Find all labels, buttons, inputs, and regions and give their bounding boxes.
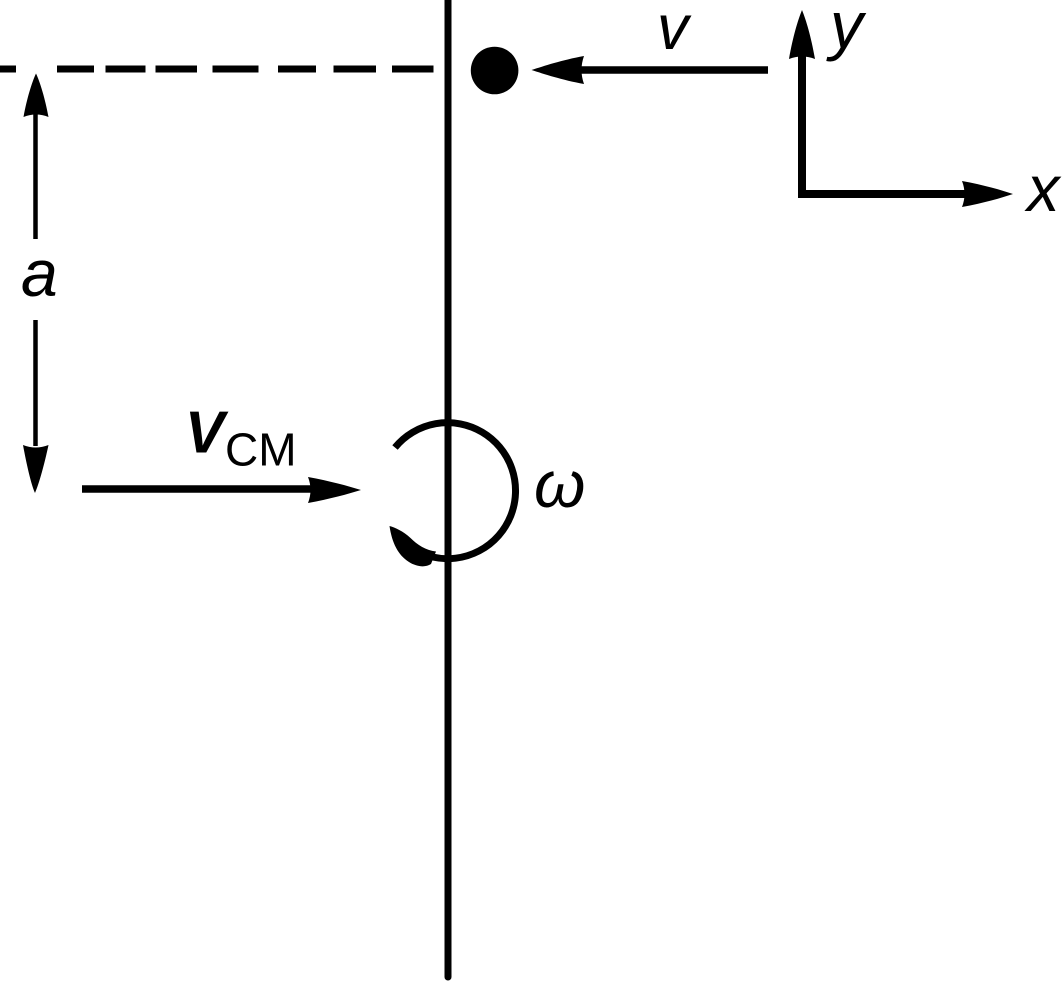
dimension arrow a (double-headed) (23, 74, 49, 494)
coordinate axes: y axis (789, 10, 815, 198)
coordinate axes: x axis (798, 181, 1013, 207)
svg-text:v: v (657, 0, 692, 63)
svg-text:CM: CM (225, 424, 297, 476)
svg-text:y: y (826, 0, 867, 62)
svg-text:ω: ω (534, 447, 585, 521)
svg-text:a: a (21, 236, 58, 310)
V_CM arrow (pointing right at rod centre) (82, 477, 361, 503)
svg-text:x: x (1024, 152, 1062, 225)
rod (vertical stick) (445, 0, 452, 977)
omega rotation arrow (circular arc with curved head) (390, 423, 516, 567)
svg-text:V: V (185, 400, 229, 466)
particle (ball) (471, 47, 519, 95)
dashed construction line (0, 66, 434, 73)
velocity v arrow (pointing left at ball) (532, 56, 769, 84)
